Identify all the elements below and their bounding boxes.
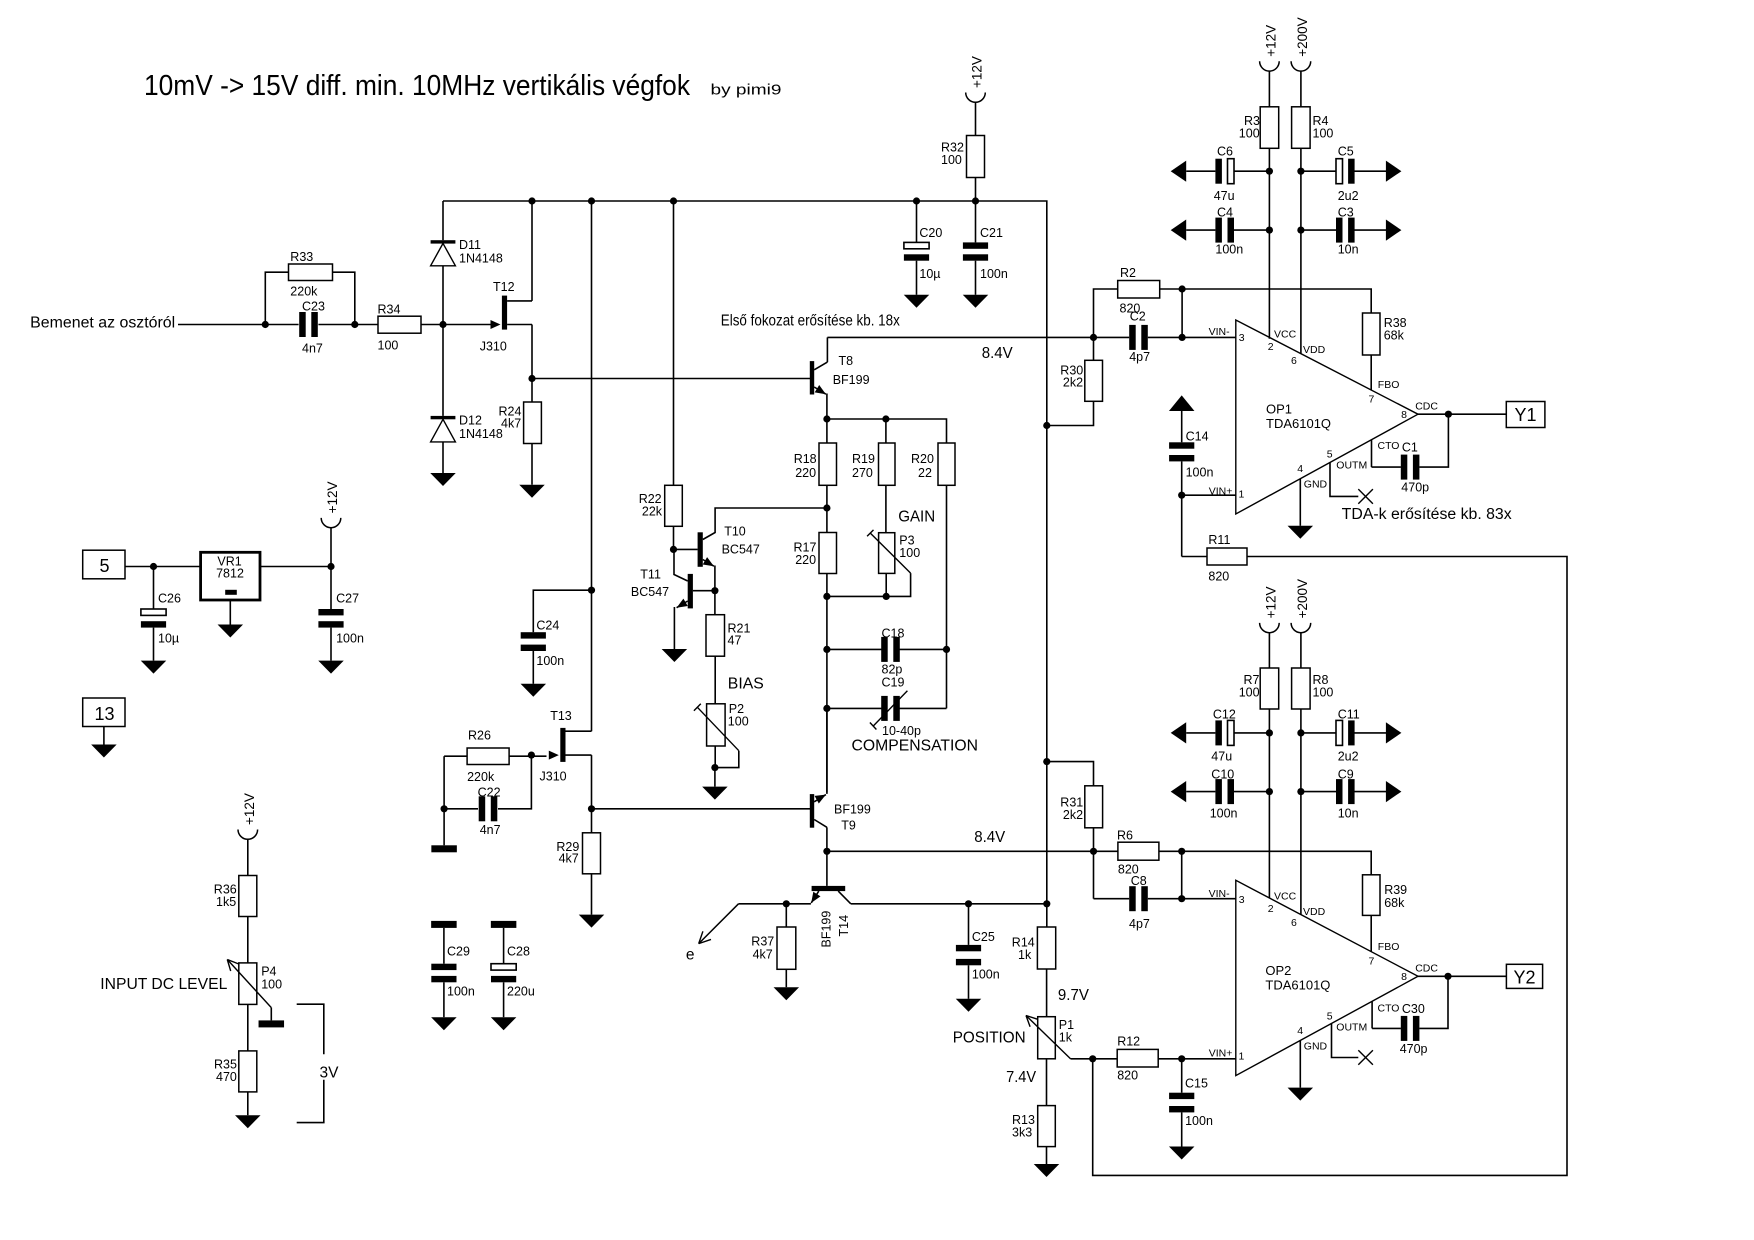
svg-text:VDD: VDD xyxy=(1303,906,1326,918)
capacitor C10 100n with rail arrow xyxy=(1171,781,1187,802)
resistor R12 820 xyxy=(1093,1058,1118,1060)
svg-text:C4: C4 xyxy=(1217,206,1233,220)
svg-text:C8: C8 xyxy=(1131,874,1147,888)
node C5 xyxy=(1297,168,1304,175)
node R2 right xyxy=(1179,285,1186,292)
capacitor C6 47u with rail arrow xyxy=(1171,161,1187,182)
svg-text:by pimi9: by pimi9 xyxy=(711,82,782,99)
node 8.4V-R2 left xyxy=(1090,334,1097,341)
svg-text:GAIN: GAIN xyxy=(898,509,935,526)
svg-text:5: 5 xyxy=(99,556,109,576)
pin OUTM no-connect xyxy=(1330,462,1358,496)
svg-text:1k: 1k xyxy=(1018,948,1032,962)
node rail-R32 xyxy=(972,197,979,204)
svg-text:C19: C19 xyxy=(882,676,905,690)
wire: R20 bottom column xyxy=(946,485,948,708)
capacitor C25 100n xyxy=(968,904,970,945)
svg-text:+200V: +200V xyxy=(1295,17,1310,56)
svg-text:2k2: 2k2 xyxy=(1063,376,1083,390)
svg-text:+12V: +12V xyxy=(1263,25,1278,57)
svg-text:8: 8 xyxy=(1401,409,1407,421)
svg-text:470p: 470p xyxy=(1400,1042,1428,1056)
svg-text:4n7: 4n7 xyxy=(480,823,501,837)
svg-text:D11: D11 xyxy=(459,238,481,252)
svg-text:8.4V: 8.4V xyxy=(982,345,1014,362)
wire: T8 emitter rail xyxy=(827,419,947,443)
resistor R14 1k xyxy=(1037,927,1055,969)
svg-text:C15: C15 xyxy=(1185,1077,1208,1091)
node R17 bottom xyxy=(823,593,830,600)
resistor R26 220k xyxy=(444,755,467,757)
svg-text:10-40p: 10-40p xyxy=(882,724,921,738)
svg-text:T12: T12 xyxy=(493,280,515,294)
svg-text:1: 1 xyxy=(1239,489,1245,501)
svg-text:68k: 68k xyxy=(1384,896,1405,910)
node C4 xyxy=(1266,227,1273,234)
svg-text:R33: R33 xyxy=(290,250,313,264)
svg-text:BF199: BF199 xyxy=(834,803,871,817)
svg-text:T14: T14 xyxy=(837,915,851,937)
svg-text:VCC: VCC xyxy=(1274,329,1297,341)
resistor R8 100 xyxy=(1292,668,1311,709)
svg-text:R2: R2 xyxy=(1120,266,1136,280)
resistor R35 470 xyxy=(239,1051,257,1092)
svg-text:VDD: VDD xyxy=(1303,344,1326,356)
svg-text:100n: 100n xyxy=(447,985,475,999)
svg-text:820: 820 xyxy=(1117,1069,1138,1083)
node T9 collector xyxy=(823,848,830,855)
node R31 at 8.4V line xyxy=(1090,848,1097,855)
node R19 top xyxy=(882,415,889,422)
svg-text:+12V: +12V xyxy=(1263,586,1278,618)
svg-text:J310: J310 xyxy=(540,770,567,784)
node C24 tap xyxy=(588,587,595,594)
svg-text:C11: C11 xyxy=(1338,708,1360,722)
svg-text:100n: 100n xyxy=(972,968,1000,982)
svg-text:2u2: 2u2 xyxy=(1338,189,1359,203)
wire: R26 left branch xyxy=(443,756,445,845)
svg-text:C5: C5 xyxy=(1338,145,1354,159)
svg-text:100: 100 xyxy=(899,546,920,560)
svg-text:470: 470 xyxy=(216,1070,237,1084)
potentiometer P4 100 xyxy=(239,963,257,1005)
open arrow P4 wiper xyxy=(227,960,230,972)
node C18 left xyxy=(823,646,830,653)
resistor R29 4k7 xyxy=(591,809,593,833)
node T10 base xyxy=(670,546,677,553)
svg-text:TDA6101Q: TDA6101Q xyxy=(1265,978,1330,993)
svg-text:100: 100 xyxy=(1239,127,1260,141)
svg-text:VIN-: VIN- xyxy=(1209,888,1231,900)
capacitor C5 2u2 with rail arrow xyxy=(1301,170,1336,172)
svg-text:C28: C28 xyxy=(507,945,530,959)
pin 5 CTO and capacitor C1 470p xyxy=(1371,440,1373,468)
node C26 tap xyxy=(150,563,157,570)
ground under R13 xyxy=(1034,1164,1060,1177)
capacitor C23 xyxy=(299,312,306,337)
connector Y1 xyxy=(1506,402,1545,428)
svg-text:C29: C29 xyxy=(447,945,470,959)
ground under C15 xyxy=(1169,1147,1195,1160)
svg-text:TDA-k erősítése kb. 83x: TDA-k erősítése kb. 83x xyxy=(1342,506,1512,523)
node C19 left xyxy=(823,705,830,712)
capacitor C3 10n with rail arrow xyxy=(1301,229,1336,231)
capacitor C2 4p7 xyxy=(1129,325,1136,350)
node OP2 VIN+ xyxy=(1178,1055,1185,1062)
resistor R22 22k xyxy=(673,201,675,485)
capacitor C15 100n xyxy=(1181,1059,1183,1093)
svg-text:P4: P4 xyxy=(261,965,276,979)
svg-text:3V: 3V xyxy=(320,1065,340,1082)
svg-text:22k: 22k xyxy=(642,505,663,519)
svg-text:BF199: BF199 xyxy=(833,373,870,387)
open terminal bar below R26 branch xyxy=(431,845,457,852)
svg-text:10mV -> 15V diff. min. 10MHz v: 10mV -> 15V diff. min. 10MHz vertikális … xyxy=(144,70,691,102)
resistor R24 4k7 xyxy=(531,379,533,403)
svg-text:220u: 220u xyxy=(507,985,535,999)
svg-text:47u: 47u xyxy=(1214,189,1235,203)
svg-text:100: 100 xyxy=(261,978,282,992)
svg-text:4p7: 4p7 xyxy=(1129,350,1150,364)
capacitor C12 47u with rail arrow xyxy=(1171,722,1187,743)
potentiometer P1 1k xyxy=(1038,1017,1056,1059)
node C12 xyxy=(1266,729,1273,736)
svg-text:820: 820 xyxy=(1208,570,1229,584)
ground under R35 xyxy=(235,1115,260,1128)
svg-text:TDA6101Q: TDA6101Q xyxy=(1266,416,1331,431)
resistor R19 270 xyxy=(879,443,896,485)
wire: R2 to R38 xyxy=(1160,289,1372,313)
ground under R24 xyxy=(519,485,545,498)
svg-text:4k7: 4k7 xyxy=(501,417,521,431)
svg-text:OUTM: OUTM xyxy=(1336,460,1367,472)
svg-text:4n7: 4n7 xyxy=(302,342,323,356)
wire: R34 to input node xyxy=(421,324,443,326)
transistor T9 BF199 xyxy=(810,794,814,828)
svg-text:C2: C2 xyxy=(1130,310,1146,324)
svg-text:C9: C9 xyxy=(1338,768,1354,782)
ground under C29 xyxy=(431,1017,457,1030)
connector 5 box xyxy=(83,550,125,579)
svg-text:100n: 100n xyxy=(980,267,1008,281)
svg-text:J310: J310 xyxy=(480,340,507,354)
svg-text:BF199: BF199 xyxy=(819,911,833,948)
node R6 right xyxy=(1178,848,1185,855)
svg-text:4: 4 xyxy=(1297,1025,1303,1037)
resistor R13 3k3 xyxy=(1038,1106,1056,1147)
svg-text:C10: C10 xyxy=(1211,768,1234,782)
svg-text:CDC: CDC xyxy=(1415,401,1438,413)
svg-text:e: e xyxy=(686,947,695,964)
diode D11 1N4148 xyxy=(442,266,444,325)
node P3 bottom xyxy=(883,593,890,600)
svg-text:1: 1 xyxy=(1239,1051,1245,1063)
node R31 branch xyxy=(1043,758,1050,765)
svg-text:6: 6 xyxy=(1291,355,1297,367)
svg-text:100: 100 xyxy=(1313,686,1334,700)
svg-text:T10: T10 xyxy=(724,525,746,539)
svg-text:Első fokozat erősítése kb. 18x: Első fokozat erősítése kb. 18x xyxy=(721,313,900,330)
op-amp OP1 TDA6101Q triangle xyxy=(1236,320,1418,514)
svg-text:82p: 82p xyxy=(882,663,903,677)
wire: R6 to R39 xyxy=(1159,851,1371,875)
open arrow e xyxy=(699,939,711,943)
svg-text:68k: 68k xyxy=(1384,329,1405,343)
node T12 source xyxy=(528,375,535,382)
svg-text:C14: C14 xyxy=(1186,430,1209,444)
svg-text:4p7: 4p7 xyxy=(1129,917,1150,931)
svg-text:8: 8 xyxy=(1401,971,1407,983)
capacitor C18 82p xyxy=(827,648,882,650)
svg-text:270: 270 xyxy=(852,466,873,480)
capacitor C4 100n with rail arrow xyxy=(1171,220,1187,241)
ground under C28 xyxy=(491,1017,516,1030)
pin 5 CTO and capacitor C30 470p xyxy=(1371,1001,1373,1028)
capacitor C9 10n with rail arrow xyxy=(1301,791,1336,793)
svg-text:+12V: +12V xyxy=(325,481,340,513)
ground under C20 xyxy=(904,295,930,308)
svg-text:R26: R26 xyxy=(468,729,491,743)
pin 2 VCC stub OP2 xyxy=(1268,709,1270,898)
transistor T13 J310 xyxy=(560,728,565,762)
svg-text:100n: 100n xyxy=(1186,466,1214,480)
transistor T10 BC547 xyxy=(674,548,698,550)
transistor T8 BF199 xyxy=(810,361,814,394)
svg-text:6: 6 xyxy=(1291,917,1297,929)
resistor R21 47 xyxy=(714,591,716,615)
node rail-T13 xyxy=(588,197,595,204)
power symbol +12V (R7) xyxy=(1260,623,1280,633)
ground under C24 xyxy=(521,684,547,697)
ground under R29 xyxy=(579,915,605,928)
svg-text:2k2: 2k2 xyxy=(1063,808,1083,822)
wire: R18-R17 junction xyxy=(826,485,828,532)
svg-text:1N4148: 1N4148 xyxy=(459,427,503,441)
ground under C25 xyxy=(956,999,982,1012)
node T11 base / R21 top xyxy=(711,587,718,594)
wire: R17 bottom to P3 bottom xyxy=(827,595,886,597)
svg-text:C18: C18 xyxy=(882,627,905,641)
svg-text:R37: R37 xyxy=(751,935,774,949)
svg-text:VIN+: VIN+ xyxy=(1209,1048,1233,1060)
svg-text:C22: C22 xyxy=(478,786,501,800)
svg-text:4k7: 4k7 xyxy=(559,852,579,866)
svg-text:470p: 470p xyxy=(1401,481,1429,495)
svg-text:2u2: 2u2 xyxy=(1338,750,1359,764)
capacitor C11 2u2 with rail arrow xyxy=(1301,732,1336,734)
capacitor C27 100n xyxy=(330,567,332,610)
svg-text:220k: 220k xyxy=(290,285,318,299)
capacitor C19 10-40p variable xyxy=(827,707,882,709)
wire: +12V top rail xyxy=(443,201,1047,927)
svg-text:GND: GND xyxy=(1304,478,1328,490)
svg-text:1k: 1k xyxy=(1059,1031,1073,1045)
ground under P2 xyxy=(702,787,728,800)
capacitor C29 100n with open top terminal xyxy=(431,921,457,928)
wire: T14 emitter to e-point xyxy=(739,903,811,905)
svg-text:100: 100 xyxy=(728,715,749,729)
resistor R20 22 xyxy=(938,443,955,485)
svg-text:220k: 220k xyxy=(467,770,495,784)
svg-text:Y1: Y1 xyxy=(1514,405,1536,425)
node C27 tap xyxy=(327,563,334,570)
ground under C27 xyxy=(318,661,344,674)
svg-text:C6: C6 xyxy=(1217,145,1233,159)
open terminal bar P4 wiper xyxy=(259,1020,285,1027)
power symbol +12V (top centre) xyxy=(966,93,986,103)
svg-text:3k3: 3k3 xyxy=(1012,1126,1032,1140)
svg-text:7: 7 xyxy=(1369,394,1375,406)
wire: T14 collector line xyxy=(851,903,1047,905)
pin 2 VCC stub xyxy=(1268,148,1270,338)
svg-text:5: 5 xyxy=(1327,449,1333,461)
node P2 wiper xyxy=(711,764,718,771)
wire: VIN+ to OP1 xyxy=(1182,494,1236,496)
svg-text:7812: 7812 xyxy=(216,567,244,581)
wire: left compensation column xyxy=(826,596,828,792)
svg-text:13: 13 xyxy=(94,704,114,724)
svg-text:BC547: BC547 xyxy=(722,543,760,557)
svg-text:+12V: +12V xyxy=(970,56,985,88)
resistor R4 100 xyxy=(1292,107,1311,149)
svg-text:7: 7 xyxy=(1369,956,1375,968)
power symbol +12V (VR1 out) xyxy=(321,518,341,528)
svg-text:100n: 100n xyxy=(1210,807,1238,821)
node C8 right xyxy=(1178,895,1185,902)
svg-text:T13: T13 xyxy=(550,709,572,723)
potentiometer P2 100 xyxy=(707,704,726,746)
power symbol +200V (R4) xyxy=(1291,61,1311,71)
svg-text:Y2: Y2 xyxy=(1513,968,1535,988)
wire: T12 source to T8 base xyxy=(532,378,810,380)
node C2 right xyxy=(1179,334,1186,341)
svg-text:1N4148: 1N4148 xyxy=(459,252,503,266)
capacitor C14 100n with up arrow xyxy=(1169,395,1195,411)
capacitor C24 100n xyxy=(533,590,591,632)
svg-text:BIAS: BIAS xyxy=(728,676,764,693)
svg-text:COMPENSATION: COMPENSATION xyxy=(852,738,979,755)
ground under D12 xyxy=(430,473,456,486)
node R26-T13 gate xyxy=(528,752,535,759)
svg-text:R6: R6 xyxy=(1117,829,1133,843)
svg-text:10n: 10n xyxy=(1338,807,1359,821)
node C3 xyxy=(1297,227,1304,234)
ground under T11 xyxy=(662,649,688,662)
pin 8 CDC output wire xyxy=(1418,413,1506,415)
svg-text:10µ: 10µ xyxy=(919,267,940,281)
potentiometer P3 100 xyxy=(879,533,895,574)
svg-text:C23: C23 xyxy=(302,300,325,314)
svg-text:C1: C1 xyxy=(1402,441,1418,455)
svg-text:C3: C3 xyxy=(1338,206,1354,220)
ground under R37 xyxy=(774,987,800,1000)
pin 6 VDD stub OP2 xyxy=(1300,709,1302,915)
svg-text:FBO: FBO xyxy=(1378,379,1400,391)
node rail-T12 xyxy=(528,197,535,204)
svg-text:R18: R18 xyxy=(794,452,817,466)
svg-text:R12: R12 xyxy=(1117,1035,1140,1049)
svg-text:3: 3 xyxy=(1239,332,1245,344)
svg-text:8.4V: 8.4V xyxy=(974,829,1006,846)
svg-text:R11: R11 xyxy=(1208,533,1230,547)
resistor R37 4k7 xyxy=(785,904,787,927)
svg-text:BC547: BC547 xyxy=(631,585,669,599)
svg-text:R39: R39 xyxy=(1384,883,1407,897)
ground under OP2 xyxy=(1288,1088,1314,1101)
resistor R3 100 xyxy=(1260,107,1279,149)
power symbol +12V (R3) xyxy=(1260,61,1280,71)
op-amp OP2 TDA6101Q triangle xyxy=(1236,880,1418,1075)
svg-text:VIN-: VIN- xyxy=(1209,326,1231,338)
connector Y2 xyxy=(1506,964,1542,988)
wire: C23 to R34 xyxy=(318,324,378,326)
svg-text:10µ: 10µ xyxy=(158,632,179,646)
node position wiper xyxy=(1089,1055,1096,1062)
svg-text:47: 47 xyxy=(728,634,742,648)
node input-left xyxy=(262,321,269,328)
node C9 xyxy=(1297,788,1304,795)
ground under OP1 xyxy=(1288,526,1314,539)
svg-text:1k5: 1k5 xyxy=(216,895,236,909)
svg-text:INPUT DC LEVEL: INPUT DC LEVEL xyxy=(100,976,227,993)
svg-text:7.4V: 7.4V xyxy=(1006,1069,1037,1086)
transistor T12 J310 xyxy=(502,296,507,330)
pin 6 VDD stub xyxy=(1300,148,1302,354)
node at D11/D12 junction xyxy=(439,321,446,328)
svg-text:47u: 47u xyxy=(1211,750,1232,764)
node R30 branch xyxy=(1043,422,1050,429)
svg-text:VIN+: VIN+ xyxy=(1209,486,1233,498)
resistor R32 100 xyxy=(967,136,985,178)
resistor R2 820 xyxy=(1094,289,1118,337)
resistor R7 100 xyxy=(1260,668,1279,709)
svg-text:100n: 100n xyxy=(1215,243,1243,257)
node input-right xyxy=(351,321,358,328)
node CDC OP2 xyxy=(1444,973,1451,980)
resistor R36 1k5 xyxy=(239,876,257,917)
wire: VR1 out xyxy=(260,566,331,568)
svg-text:C21: C21 xyxy=(980,226,1003,240)
wire: 8.4V lower line xyxy=(827,850,1118,852)
capacitor C20 10µ xyxy=(916,201,918,242)
svg-text:CTO: CTO xyxy=(1378,440,1400,452)
resistor R34 xyxy=(378,316,421,333)
svg-text:+200V: +200V xyxy=(1295,579,1310,618)
svg-text:2: 2 xyxy=(1268,341,1274,353)
wire: 8.4V line (T8 collector to OP1 VIN-) xyxy=(827,336,1129,338)
pin OUTM no-connect OP2 xyxy=(1332,1023,1359,1057)
power symbol +12V (input DC level) xyxy=(238,830,258,840)
node OP1 VIN+ xyxy=(1178,492,1185,499)
node C25 top xyxy=(965,900,972,907)
resistor R18 220 xyxy=(819,443,837,485)
node supply column joint xyxy=(1043,900,1050,907)
svg-text:T8: T8 xyxy=(839,354,854,368)
svg-text:D12: D12 xyxy=(459,414,482,428)
svg-text:VCC: VCC xyxy=(1274,891,1297,903)
resistor R6 820 xyxy=(1118,842,1159,860)
node C22 left xyxy=(441,805,448,812)
capacitor C26 10µ xyxy=(153,567,155,610)
transistor T11 BC547 xyxy=(693,590,715,592)
svg-text:9.7V: 9.7V xyxy=(1058,987,1090,1004)
svg-text:5: 5 xyxy=(1327,1011,1333,1023)
capacitor C8 4p7 xyxy=(1094,898,1130,900)
connector 13 box xyxy=(83,698,125,727)
transistor T14 BF199 (rotated) xyxy=(826,851,828,886)
svg-text:100: 100 xyxy=(941,153,962,167)
node C6 xyxy=(1266,168,1273,175)
